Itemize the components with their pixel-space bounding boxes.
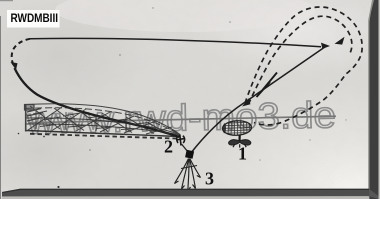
float net hatching xyxy=(222,120,253,138)
lattice diagonals up xyxy=(28,107,172,134)
dark mottle mid left xyxy=(0,105,110,195)
thick line from left loop down to rod tip xyxy=(15,68,180,137)
outer dashed teardrop loop xyxy=(245,7,362,125)
svg-text:1: 1 xyxy=(238,144,247,164)
solid line from right arrow down to anchor xyxy=(191,46,328,154)
bright area bottom right xyxy=(150,60,380,199)
arrowhead on left dashed curve xyxy=(11,62,18,70)
left end bracket xyxy=(25,105,35,111)
lattice diagonals down xyxy=(30,106,170,135)
anchor weight square xyxy=(185,150,194,159)
rod tip hook xyxy=(176,135,185,146)
svg-text:RWDMBIII: RWDMBIII xyxy=(11,11,59,25)
top-left faint edge xyxy=(0,0,13,1)
bottom rail xyxy=(27,131,180,137)
grapnel prongs xyxy=(175,159,201,192)
arrowhead right end of top line xyxy=(321,43,330,49)
small detached direction arrow near loop end xyxy=(335,37,345,45)
line rod tip to anchor square xyxy=(182,144,189,152)
float stem xyxy=(238,135,240,142)
dark mottle top left xyxy=(0,0,150,115)
lightning bolt break symbol xyxy=(257,73,278,98)
float body oval xyxy=(222,120,252,136)
right dark border strip xyxy=(370,0,379,199)
lattice scratch marks xyxy=(33,111,152,135)
left thin dark edge xyxy=(0,16,1,199)
dashed U-turn of line at left xyxy=(12,39,30,65)
bottom dark bar xyxy=(2,189,369,197)
rod lattice structure xyxy=(25,104,181,139)
float dark left end xyxy=(223,123,226,134)
light band top mid xyxy=(55,0,315,32)
lattice dark butt shading xyxy=(27,109,43,122)
svg-text:3: 3 xyxy=(205,169,214,189)
main fishing line: top span to right arrow xyxy=(30,38,321,46)
mid rail xyxy=(26,118,180,135)
title box RWDMBIII xyxy=(7,10,60,28)
top rail xyxy=(25,104,180,135)
lattice inner rail xyxy=(26,124,180,136)
inner dashed teardrop loop xyxy=(249,16,352,104)
svg-text:2: 2 xyxy=(164,137,173,157)
float skirt / propeller xyxy=(229,140,251,146)
bottom rail ticks xyxy=(30,134,176,139)
bright area top right xyxy=(190,0,380,75)
second top rail dashed xyxy=(25,108,181,136)
left vertical end xyxy=(25,105,27,132)
paper specks xyxy=(18,7,347,188)
arrowhead at loop bottom near float xyxy=(242,98,250,107)
watermark www.rwd-mo3.de with strikethrough xyxy=(25,94,336,141)
